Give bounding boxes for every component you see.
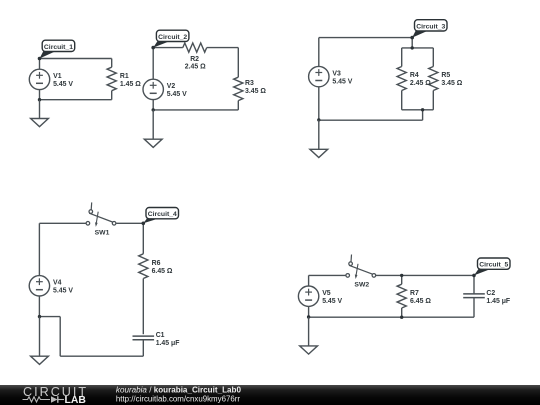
svg-text:R2: R2 (190, 56, 199, 63)
svg-text:V2: V2 (167, 83, 176, 90)
svg-text:R5: R5 (441, 72, 450, 79)
svg-text:R6: R6 (152, 260, 161, 267)
svg-text:Circuit_4: Circuit_4 (148, 211, 177, 218)
svg-text:Circuit_2: Circuit_2 (158, 34, 187, 41)
svg-text:V1: V1 (53, 73, 62, 80)
svg-text:R3: R3 (245, 80, 254, 87)
svg-text:R1: R1 (120, 73, 129, 80)
svg-text:6.45 Ω: 6.45 Ω (152, 268, 173, 275)
svg-text:2.45 Ω: 2.45 Ω (185, 64, 206, 71)
svg-text:kourabia / kourabia_Circuit_La: kourabia / kourabia_Circuit_Lab0 (116, 386, 242, 395)
svg-text:3.45 Ω: 3.45 Ω (441, 80, 462, 87)
svg-text:6.45 Ω: 6.45 Ω (410, 298, 431, 305)
svg-text:V5: V5 (322, 290, 331, 297)
svg-text:5.45 V: 5.45 V (53, 288, 73, 295)
svg-text:2.45 Ω: 2.45 Ω (410, 80, 431, 87)
svg-text:1.45 μF: 1.45 μF (156, 340, 180, 347)
svg-text:C2: C2 (486, 290, 495, 297)
svg-text:Circuit_1: Circuit_1 (44, 44, 73, 51)
svg-text:5.45 V: 5.45 V (332, 78, 352, 85)
svg-text:Circuit_5: Circuit_5 (479, 262, 508, 269)
svg-text:LAB: LAB (65, 395, 87, 405)
svg-text:V4: V4 (53, 280, 62, 287)
svg-text:http://circuitlab.com/cnxu9kmy: http://circuitlab.com/cnxu9kmy676rr (116, 394, 240, 403)
svg-text:1.45 μF: 1.45 μF (486, 298, 510, 305)
svg-text:V3: V3 (332, 70, 341, 77)
svg-text:Circuit_3: Circuit_3 (416, 23, 445, 30)
svg-text:SW1: SW1 (95, 230, 110, 237)
svg-text:R7: R7 (410, 290, 419, 297)
svg-text:3.45 Ω: 3.45 Ω (245, 88, 266, 95)
svg-text:5.45 V: 5.45 V (322, 298, 342, 305)
svg-text:1.45 Ω: 1.45 Ω (120, 81, 141, 88)
svg-text:R4: R4 (410, 72, 419, 79)
svg-text:SW2: SW2 (354, 282, 369, 289)
svg-text:5.45 V: 5.45 V (167, 91, 187, 98)
svg-text:5.45 V: 5.45 V (53, 81, 73, 88)
svg-text:C1: C1 (156, 332, 165, 339)
